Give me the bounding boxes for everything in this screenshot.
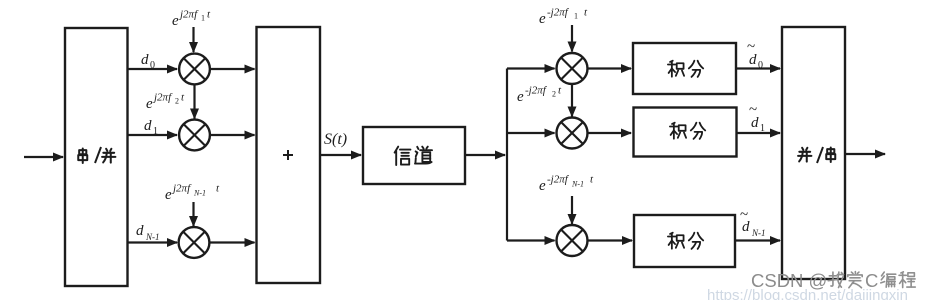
svg-text:d: d — [742, 219, 750, 235]
wire output arrow — [845, 153, 885, 155]
label d~N-1 — [740, 207, 766, 238]
multiplier M2 — [179, 120, 210, 151]
label e^j2pi f2 t — [146, 92, 185, 113]
label e^-j2pi f2 t — [517, 85, 562, 106]
label e^-j2pi fN-1 t — [539, 174, 594, 195]
svg-text:https://blog.csdn.net/daijingx: https://blog.csdn.net/daijingxin — [707, 287, 908, 300]
wire D1 to integrator 1 — [588, 67, 632, 69]
svg-text:e: e — [165, 187, 172, 203]
wire bus to demod multiplier D1 — [507, 67, 555, 69]
svg-text:d: d — [751, 115, 759, 131]
wire M3 to summer — [210, 241, 255, 243]
wire oscillator into D3 — [571, 196, 573, 224]
svg-text:e: e — [539, 11, 546, 27]
wire d0 from U1 to multiplier M1 — [127, 68, 177, 70]
multiplier M1 — [179, 54, 210, 85]
multiplier D3 — [557, 225, 588, 256]
wire bus to demod multiplier D3 — [507, 239, 555, 241]
wire M2 to summer — [210, 134, 255, 136]
svg-text:1: 1 — [201, 14, 205, 23]
svg-text:j2πf: j2πf — [178, 9, 199, 21]
svg-text:N-1: N-1 — [751, 228, 766, 238]
wire oscillator 1 into M1 — [192, 27, 194, 52]
svg-text:d: d — [749, 52, 757, 68]
block channel 信道 — [363, 127, 465, 184]
label e^j2pi f1 t — [172, 9, 211, 30]
svg-text:-j2πf: -j2πf — [525, 85, 548, 97]
wire D3 to integrator 3 — [588, 239, 633, 241]
svg-text:j2πf: j2πf — [152, 92, 173, 104]
label d~1 — [749, 102, 765, 134]
block U2 parallel-to-serial 并/串 — [782, 27, 845, 279]
svg-text:t: t — [207, 9, 211, 21]
wire integrator 2 to P/S — [737, 132, 781, 134]
svg-text:t: t — [590, 174, 594, 186]
label dN-1 — [136, 223, 160, 242]
wire oscillator 3 into M3 — [192, 202, 194, 226]
block integrator 1 积分 — [633, 43, 736, 94]
wire D2 to integrator 2 — [588, 132, 632, 134]
svg-text:t: t — [584, 7, 588, 19]
wire summer to channel — [320, 154, 361, 156]
label d~0 — [747, 39, 763, 71]
svg-text:e: e — [146, 96, 153, 112]
wire channel to bus — [465, 154, 505, 156]
svg-text:N-1: N-1 — [571, 180, 584, 189]
svg-text:-j2πf: -j2πf — [547, 7, 570, 19]
block integrator 3 积分 — [634, 215, 735, 267]
watermark CSDN @我爱C编程 — [751, 270, 915, 291]
svg-text:t: t — [181, 92, 185, 104]
wire integrator 3 to P/S — [735, 239, 780, 241]
multiplier M3 — [179, 227, 210, 258]
svg-text:d: d — [136, 223, 144, 239]
wire bus vertical — [506, 69, 508, 241]
svg-text:e: e — [517, 89, 524, 105]
svg-text:-j2πf: -j2πf — [547, 174, 570, 186]
block summer + — [257, 27, 321, 283]
label e^-j2pi f1 t — [539, 7, 588, 28]
label d1 — [144, 118, 158, 137]
wire bus to demod multiplier D2 — [507, 132, 555, 134]
svg-text:2: 2 — [175, 97, 179, 106]
svg-text:0: 0 — [758, 60, 763, 71]
svg-text:0: 0 — [150, 60, 155, 71]
label e^j2pi fN-1 t — [165, 183, 220, 204]
multiplier D2 — [557, 118, 588, 149]
wire M1 to summer — [210, 68, 255, 70]
wire dN-1 from U1 to multiplier M3 — [127, 241, 177, 243]
svg-text:t: t — [558, 85, 562, 97]
svg-text:e: e — [539, 178, 546, 194]
svg-text:j2πf: j2πf — [171, 183, 192, 195]
svg-text:1: 1 — [153, 126, 158, 137]
wire oscillator 2 into M2 — [193, 85, 195, 119]
svg-text:t: t — [216, 183, 220, 195]
svg-text:N-1: N-1 — [193, 189, 206, 198]
label d0 — [141, 52, 155, 71]
wire oscillator into D2 — [571, 84, 573, 116]
wire oscillator into D1 — [571, 25, 573, 52]
wire d1 from U1 to multiplier M2 — [127, 134, 177, 136]
svg-text:1: 1 — [574, 12, 578, 21]
svg-text:d: d — [141, 52, 149, 68]
svg-text:d: d — [144, 118, 152, 134]
block integrator 2 积分 — [634, 108, 737, 157]
wire input arrow — [24, 156, 63, 158]
svg-text:S(t): S(t) — [324, 131, 347, 148]
multiplier D1 — [557, 53, 588, 84]
svg-text:2: 2 — [552, 90, 556, 99]
svg-text:e: e — [172, 13, 179, 29]
block U1 serial-to-parallel 串/并 — [65, 28, 128, 286]
svg-text:1: 1 — [760, 123, 765, 134]
wire integrator 1 to P/S — [736, 67, 780, 69]
svg-text:N-1: N-1 — [145, 232, 160, 242]
